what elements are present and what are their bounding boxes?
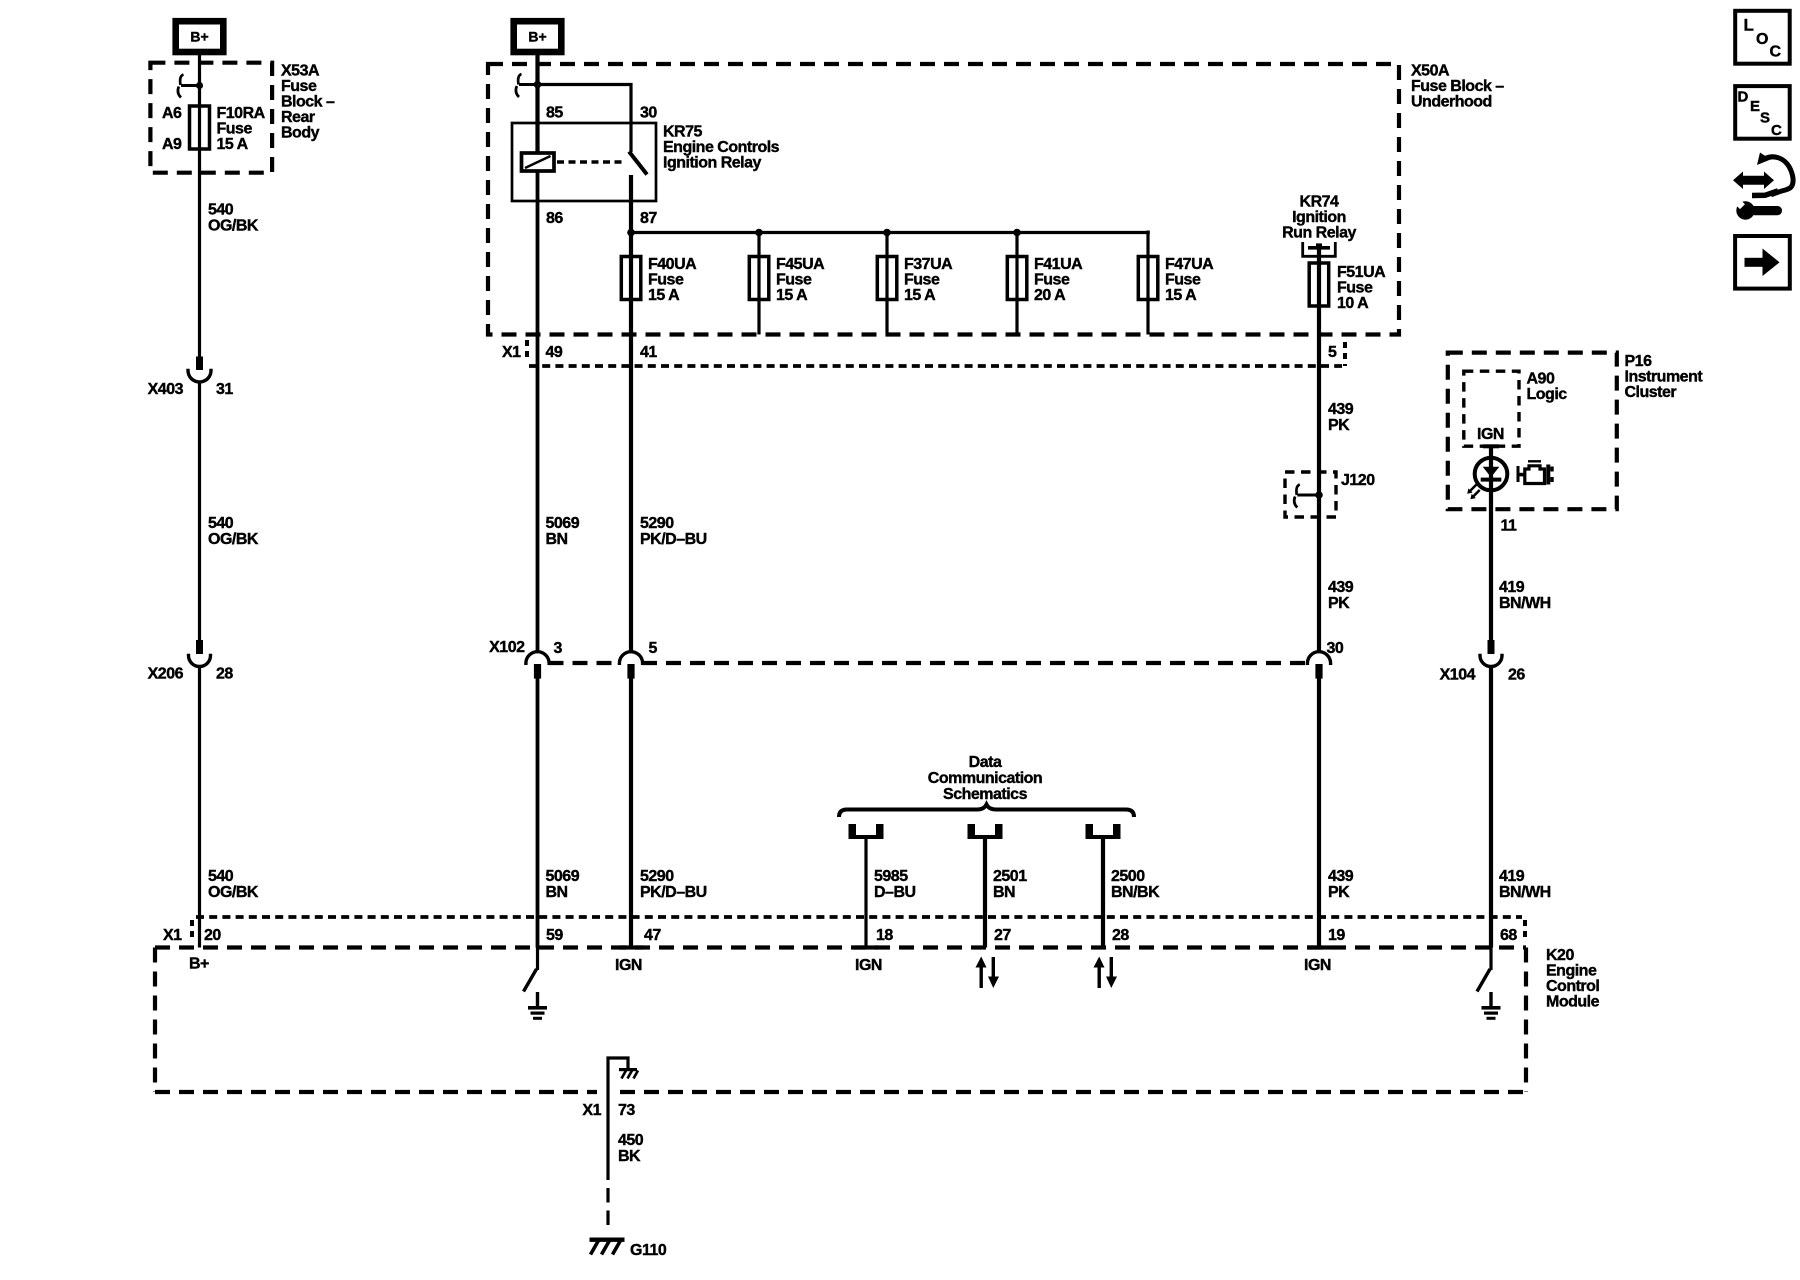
value label F45UA Fuse 15 A <box>776 256 825 304</box>
svg-text:X102: X102 <box>489 639 525 656</box>
internal ground reference hook at ECM pin 73 <box>608 1058 638 1092</box>
svg-text:E: E <box>1750 98 1760 115</box>
svg-text:F10RA: F10RA <box>217 105 266 122</box>
wire label 5985 D-BU <box>874 868 916 901</box>
svg-text:85: 85 <box>546 105 563 122</box>
svg-text:5069: 5069 <box>546 515 580 532</box>
svg-text:G110: G110 <box>630 1242 667 1259</box>
svg-text:19: 19 <box>1328 927 1345 944</box>
wire B+ drop into X50A <box>535 53 539 153</box>
connector X104 pin 26 <box>1480 640 1502 667</box>
node tab at A90 output <box>1483 444 1499 448</box>
component label X53A Fuse Block - Rear Body <box>281 62 335 141</box>
svg-text:B+: B+ <box>190 29 208 45</box>
component label KR74 Ignition Run Relay <box>1282 193 1356 241</box>
value label F40UA Fuse 15 A <box>648 256 697 304</box>
svg-text:30: 30 <box>640 105 657 122</box>
svg-text:PK/D–BU: PK/D–BU <box>640 531 707 548</box>
svg-text:Fuse: Fuse <box>904 271 940 288</box>
ground symbol inside ECM (pin 59) <box>528 992 547 1020</box>
relay coil KR75 <box>522 153 555 171</box>
junction node at relay feed split <box>534 81 542 89</box>
wire 419 BN/WH X104 to ECM pin 68 <box>1489 666 1493 948</box>
svg-text:15 A: 15 A <box>217 136 249 153</box>
svg-text:IGN: IGN <box>1304 957 1331 974</box>
svg-text:28: 28 <box>216 665 233 682</box>
wire 450 BK solid segment <box>606 1092 609 1180</box>
wire label 439 PK (top) <box>1328 401 1354 434</box>
svg-text:C: C <box>1771 122 1782 139</box>
brace over data communication drops <box>839 805 1134 818</box>
serial data arrows at pin 27 <box>976 957 1000 989</box>
junction node bus at F41UA <box>1013 229 1021 237</box>
svg-text:X1: X1 <box>163 927 182 944</box>
svg-text:540: 540 <box>208 515 234 532</box>
svg-text:BN: BN <box>993 884 1015 901</box>
ground G110 symbol <box>590 1238 625 1255</box>
svg-text:3: 3 <box>554 640 563 657</box>
node tab ECM pin 19 <box>1307 945 1331 949</box>
svg-text:X53A: X53A <box>281 62 320 79</box>
svg-text:439: 439 <box>1328 401 1354 418</box>
wire label 419 BN/WH (lower) <box>1499 868 1551 901</box>
svg-text:KR75: KR75 <box>663 123 703 140</box>
component label X50A Fuse Block - Underhood <box>1411 62 1504 110</box>
connector X102 pin 30 <box>1307 652 1330 679</box>
svg-text:BN: BN <box>546 884 568 901</box>
connector X102 dashed plane line <box>549 661 1309 665</box>
svg-text:X50A: X50A <box>1411 62 1450 79</box>
latch clip symbol inside X50A <box>516 74 538 97</box>
splice J120 dashed box <box>1285 472 1336 517</box>
svg-text:KR74: KR74 <box>1300 193 1340 210</box>
wire label 540 OG/BK (middle) <box>208 515 259 548</box>
svg-text:IGN: IGN <box>1477 426 1504 443</box>
logic module A90 dashed box <box>1464 371 1519 446</box>
svg-text:Engine Controls: Engine Controls <box>663 139 780 156</box>
svg-text:D: D <box>1738 89 1749 106</box>
svg-text:20: 20 <box>204 927 221 944</box>
node tab ECM pin 18 <box>854 945 878 949</box>
wire label 5069 BN (upper) <box>546 515 580 548</box>
svg-text:Data: Data <box>969 754 1002 771</box>
latch clip symbol inside X53A <box>178 75 200 98</box>
svg-text:5: 5 <box>1328 344 1337 361</box>
dashed mechanical link coil to contact <box>557 160 625 164</box>
svg-text:D–BU: D–BU <box>874 884 916 901</box>
serial data arrows at pin 28 <box>1094 957 1118 989</box>
svg-text:540: 540 <box>208 201 234 218</box>
svg-text:B+: B+ <box>528 29 546 45</box>
svg-text:2501: 2501 <box>993 868 1027 885</box>
svg-text:BN/WH: BN/WH <box>1499 595 1551 612</box>
fuse F51UA 10 A <box>1309 263 1329 306</box>
svg-text:Cluster: Cluster <box>1625 384 1677 401</box>
svg-text:P16: P16 <box>1625 353 1653 370</box>
wire IGN feed through indicator down to pin 11 <box>1489 446 1493 640</box>
wire inside ECM from pin 68 <box>1489 948 1492 971</box>
node tab ECM pin 47 <box>619 945 643 949</box>
component label A90 Logic <box>1527 370 1568 403</box>
svg-text:OG/BK: OG/BK <box>208 217 259 234</box>
svg-text:10 A: 10 A <box>1337 295 1369 312</box>
wire from junction to relay pin 30 <box>538 85 632 153</box>
svg-text:Fuse: Fuse <box>648 271 684 288</box>
svg-text:X1: X1 <box>582 1102 601 1119</box>
wire label 2500 BN/BK <box>1111 868 1160 901</box>
junction node on wire at latch (X53A) <box>196 82 203 89</box>
svg-text:F40UA: F40UA <box>648 256 697 273</box>
svg-text:419: 419 <box>1499 868 1525 885</box>
svg-text:F37UA: F37UA <box>904 256 953 273</box>
svg-text:J120: J120 <box>1341 472 1375 489</box>
wire label 439 PK (middle) <box>1328 579 1354 612</box>
connector X403 pin 31 <box>188 357 211 383</box>
indicator LED (MIL) symbol <box>1467 458 1507 500</box>
svg-text:B+: B+ <box>189 955 209 972</box>
fuse F10RA 15 A <box>190 106 210 149</box>
wire branch F41UA <box>1015 233 1018 335</box>
svg-text:F45UA: F45UA <box>776 256 825 273</box>
off-page connector cup (2501) <box>968 824 1003 839</box>
wire 5069 BN X102 to ECM pin 59 <box>536 679 540 948</box>
svg-text:Logic: Logic <box>1527 386 1568 403</box>
svg-text:439: 439 <box>1328 579 1354 596</box>
svg-text:41: 41 <box>640 344 657 361</box>
svg-text:Communication: Communication <box>928 770 1042 787</box>
svg-text:Underhood: Underhood <box>1411 93 1492 110</box>
svg-text:15 A: 15 A <box>1165 287 1197 304</box>
svg-text:86: 86 <box>546 210 563 227</box>
ECM K20 dashed box <box>155 948 1526 1093</box>
value label F10RA Fuse 15 A <box>217 105 266 153</box>
svg-text:18: 18 <box>876 927 893 944</box>
svg-text:Ignition Relay: Ignition Relay <box>663 154 762 171</box>
wire label 439 PK (lower) <box>1328 868 1354 901</box>
svg-text:Body: Body <box>281 124 320 141</box>
wire branch F37UA <box>885 233 888 335</box>
svg-text:BN/BK: BN/BK <box>1111 884 1160 901</box>
svg-text:59: 59 <box>546 927 563 944</box>
svg-text:Schematics: Schematics <box>943 786 1028 803</box>
wire label 450 BK <box>618 1132 644 1165</box>
svg-text:5290: 5290 <box>640 515 674 532</box>
svg-text:450: 450 <box>618 1132 644 1149</box>
svg-text:31: 31 <box>216 381 233 398</box>
engine MIL icon <box>1517 461 1554 484</box>
svg-text:IGN: IGN <box>615 957 642 974</box>
fuse F47UA 15 A <box>1138 257 1158 300</box>
svg-text:X403: X403 <box>148 381 184 398</box>
power symbol B+ (rear body feed) <box>176 21 224 52</box>
wire label 540 OG/BK (upper) <box>208 201 259 234</box>
svg-text:419: 419 <box>1499 579 1525 596</box>
icon diagnostic wrench with arrows <box>1733 153 1794 220</box>
svg-text:27: 27 <box>994 927 1011 944</box>
relay KR75 box <box>512 123 656 201</box>
wire label 5069 BN (lower) <box>546 868 580 901</box>
off-page connector cup (5985) <box>849 824 884 839</box>
wire 450 BK dashed segment to G110 <box>606 1188 609 1226</box>
wire label 5290 PK/D-BU (upper) <box>640 515 707 548</box>
svg-text:15 A: 15 A <box>904 287 936 304</box>
svg-text:26: 26 <box>1508 666 1525 683</box>
icon LOC (top right) <box>1735 11 1790 64</box>
svg-text:Fuse: Fuse <box>1034 271 1070 288</box>
value label F51UA Fuse 10 A <box>1337 264 1386 312</box>
svg-text:F41UA: F41UA <box>1034 256 1083 273</box>
wire relay pin 87 down to fuse bus <box>629 175 633 653</box>
fuse F40UA 15 A <box>621 257 641 300</box>
svg-text:IGN: IGN <box>855 957 882 974</box>
heading Data Communication Schematics <box>928 754 1042 803</box>
svg-text:C: C <box>1770 44 1782 61</box>
svg-text:Rear: Rear <box>281 109 315 126</box>
svg-text:O: O <box>1756 31 1768 48</box>
svg-text:5290: 5290 <box>640 868 674 885</box>
junction node bus at F45UA <box>755 229 763 237</box>
wire KR74 output through fuse F51UA down <box>1317 247 1321 653</box>
svg-text:Fuse: Fuse <box>776 271 812 288</box>
off-page connector cup (2500) <box>1086 824 1121 839</box>
icon forward arrow (bottom right) <box>1735 236 1790 289</box>
svg-text:K20: K20 <box>1546 947 1574 964</box>
svg-text:Fuse: Fuse <box>1165 271 1201 288</box>
svg-text:A90: A90 <box>1527 370 1555 387</box>
wire 540 OG/BK segment from B+ to fuse F10RA and down to X403 <box>198 55 201 357</box>
switch blade to ground (pin 68) <box>1477 969 1490 992</box>
connector X1 strip of X50A <box>502 340 1345 366</box>
svg-text:540: 540 <box>208 868 234 885</box>
wire 5985 D-BU to ECM pin 18 <box>864 838 867 948</box>
svg-text:15 A: 15 A <box>648 287 680 304</box>
wire branch F45UA <box>757 233 760 335</box>
svg-text:L: L <box>1744 16 1754 35</box>
svg-text:PK/D–BU: PK/D–BU <box>640 884 707 901</box>
junction node at J120 <box>1315 491 1323 499</box>
fuse F45UA 15 A <box>749 257 769 300</box>
svg-text:A9: A9 <box>162 136 182 153</box>
connector X1 strip of ECM (dashed plane) <box>163 917 1525 944</box>
wire 439 PK X102 to ECM pin 19 <box>1317 679 1321 948</box>
svg-text:PK: PK <box>1328 884 1350 901</box>
svg-text:OG/BK: OG/BK <box>208 884 259 901</box>
svg-text:Module: Module <box>1546 993 1600 1010</box>
relay KR74 contact cup symbol <box>1303 242 1336 256</box>
svg-text:F47UA: F47UA <box>1165 256 1214 273</box>
junction node bus at F40UA <box>627 229 635 237</box>
svg-text:F51UA: F51UA <box>1337 264 1386 281</box>
wire coil bottom (pin 86) down through block <box>536 171 540 653</box>
svg-text:Fuse: Fuse <box>281 78 317 95</box>
svg-text:OG/BK: OG/BK <box>208 531 259 548</box>
svg-text:X104: X104 <box>1440 666 1476 683</box>
power symbol B+ (underhood feed) <box>514 21 562 52</box>
wire 2501 BN to ECM pin 27 <box>983 838 987 948</box>
instrument cluster P16 dashed box <box>1448 353 1617 510</box>
component label K20 Engine Control Module <box>1546 947 1600 1011</box>
svg-text:30: 30 <box>1327 640 1344 657</box>
svg-text:15 A: 15 A <box>776 287 808 304</box>
svg-text:20 A: 20 A <box>1034 287 1066 304</box>
fuse F37UA 15 A <box>877 257 897 300</box>
latch clip symbol inside J120 <box>1294 485 1319 508</box>
svg-text:68: 68 <box>1500 927 1517 944</box>
svg-text:Fuse: Fuse <box>1337 279 1373 296</box>
connector X102 pin 3 <box>526 652 549 679</box>
svg-text:Control: Control <box>1546 978 1599 995</box>
connector X102 pin 5 <box>619 652 642 679</box>
svg-text:28: 28 <box>1112 927 1129 944</box>
wire label 5290 PK/D-BU (lower) <box>640 868 707 901</box>
fuse block X50A dashed box <box>488 64 1399 335</box>
svg-text:Run Relay: Run Relay <box>1282 224 1356 241</box>
svg-text:2500: 2500 <box>1111 868 1145 885</box>
value label F37UA Fuse 15 A <box>904 256 953 304</box>
svg-text:5069: 5069 <box>546 868 580 885</box>
svg-text:Instrument: Instrument <box>1625 368 1704 385</box>
svg-text:Engine: Engine <box>1546 962 1597 979</box>
wire 2500 BN/BK to ECM pin 28 <box>1101 838 1105 948</box>
ground symbol inside ECM (pin 68) <box>1482 992 1501 1020</box>
svg-text:PK: PK <box>1328 595 1350 612</box>
fuse feed bus from pin 87 <box>631 231 1150 234</box>
component label P16 Instrument Cluster <box>1625 353 1704 401</box>
fuse F41UA 20 A <box>1007 257 1027 300</box>
svg-text:11: 11 <box>1501 517 1518 534</box>
fuse block X53A dashed box <box>150 63 272 173</box>
svg-text:49: 49 <box>546 344 563 361</box>
svg-text:73: 73 <box>618 1102 635 1119</box>
wire 540 OG/BK segment X206 to ECM pin 20 <box>198 666 201 947</box>
svg-text:S: S <box>1760 110 1770 127</box>
wire branch F47UA <box>1146 231 1149 335</box>
wire label 540 OG/BK (lower) <box>208 868 259 901</box>
component label KR75 Engine Controls Ignition Relay <box>663 123 780 171</box>
svg-text:X206: X206 <box>148 665 184 682</box>
svg-text:Block –: Block – <box>281 93 335 110</box>
wire label 2501 BN <box>993 868 1027 901</box>
svg-text:BN: BN <box>546 531 568 548</box>
svg-text:87: 87 <box>640 210 657 227</box>
icon DESC <box>1735 86 1790 139</box>
wire 5290 PK/D-BU X102 to ECM pin 47 <box>629 679 633 948</box>
svg-text:5: 5 <box>649 640 658 657</box>
wire inside ECM from pin 59 <box>536 948 539 971</box>
connector X206 pin 28 <box>189 640 211 667</box>
svg-text:BK: BK <box>618 1148 641 1165</box>
wire label 419 BN/WH (upper) <box>1499 579 1551 612</box>
svg-text:Ignition: Ignition <box>1292 209 1346 226</box>
svg-text:439: 439 <box>1328 868 1354 885</box>
svg-text:BN/WH: BN/WH <box>1499 884 1551 901</box>
svg-text:X1: X1 <box>502 344 521 361</box>
junction node bus at F37UA <box>883 229 891 237</box>
relay contact switch blade <box>629 152 647 175</box>
value label F47UA Fuse 15 A <box>1165 256 1214 304</box>
switch blade to ground (pin 59) <box>524 969 537 992</box>
wire 540 OG/BK segment X403 to X206 <box>198 382 201 640</box>
svg-text:PK: PK <box>1328 417 1350 434</box>
svg-text:A6: A6 <box>162 105 182 122</box>
svg-text:5985: 5985 <box>874 868 908 885</box>
value label F41UA Fuse 20 A <box>1034 256 1083 304</box>
svg-text:47: 47 <box>644 927 661 944</box>
svg-text:Fuse Block –: Fuse Block – <box>1411 78 1504 95</box>
svg-text:Fuse: Fuse <box>217 120 253 137</box>
